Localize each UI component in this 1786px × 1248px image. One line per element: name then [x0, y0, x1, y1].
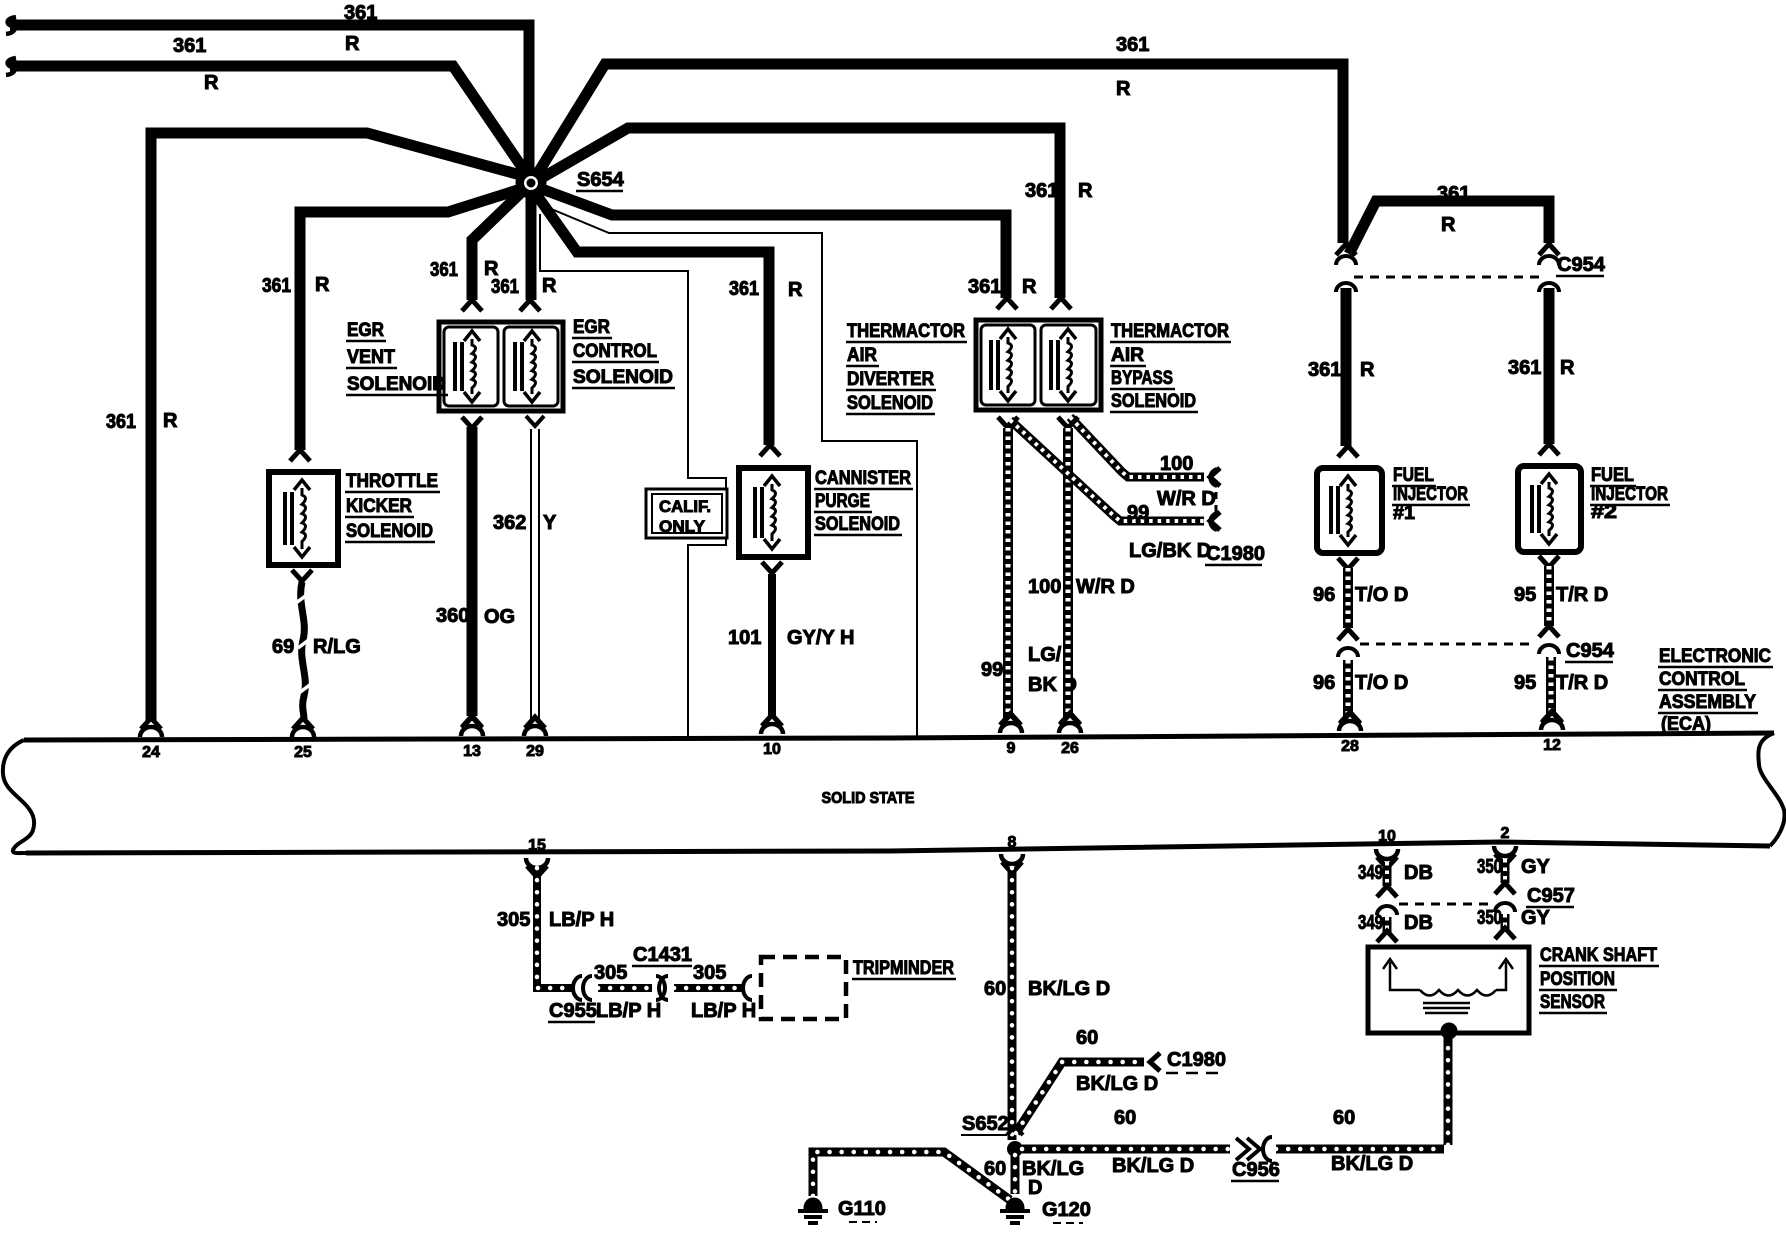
wire 305 LB/P H (ECA pin 15 to C955, dotted)	[497, 868, 614, 988]
svg-text:12: 12	[1543, 737, 1561, 754]
svg-text:INJECTOR: INJECTOR	[1393, 484, 1468, 505]
ECA label	[1658, 646, 1773, 735]
svg-text:361: 361	[1116, 34, 1149, 56]
wire 361 R (branch to fuel injector no.2 via C954)	[1349, 183, 1549, 254]
svg-text:THROTTLE: THROTTLE	[346, 471, 438, 492]
svg-text:OG: OG	[484, 606, 515, 628]
svg-text:LG/BK D: LG/BK D	[1129, 540, 1211, 562]
svg-text:SOLENOID: SOLENOID	[347, 374, 446, 395]
connector C1431	[632, 944, 692, 1000]
svg-text:GY: GY	[1521, 907, 1551, 929]
wire 100 W/R D (thermactor air bypass branch to C1980, hatched)	[1070, 417, 1220, 510]
svg-text:60: 60	[1333, 1107, 1355, 1129]
svg-text:ELECTRONIC: ELECTRONIC	[1659, 646, 1771, 667]
svg-text:(ECA): (ECA)	[1661, 714, 1711, 735]
THROTTLE KICKER SOLENOID label	[345, 471, 440, 542]
svg-text:BK/LG D: BK/LG D	[1112, 1155, 1194, 1177]
wire 350 GY (C957 to crank shaft position sensor, hatched)	[1477, 907, 1551, 939]
wire 305 LB/P H (C1431 to tripminder, dotted)	[674, 962, 756, 1022]
svg-text:EGR: EGR	[347, 320, 384, 341]
wire 361 R (C954 to fuel injector no.1)	[1308, 288, 1375, 457]
svg-text:G110: G110	[838, 1198, 886, 1220]
wire 361 R (splice to EGR control solenoid)	[491, 190, 557, 311]
wire 360 OG (EGR vent solenoid to ECA pin 13)	[436, 417, 515, 727]
wire 361 R (splice to throttle kicker solenoid)	[262, 188, 524, 461]
svg-text:100: 100	[1160, 453, 1193, 475]
svg-text:SENSOR: SENSOR	[1540, 992, 1605, 1013]
wire 361 R (top feed, from off-page left to splice S654)	[6, 2, 529, 170]
connector at tripminder	[743, 976, 752, 1000]
svg-text:361: 361	[729, 278, 759, 300]
svg-text:R: R	[788, 279, 803, 301]
svg-text:R/LG: R/LG	[313, 636, 361, 658]
svg-text:361: 361	[1437, 183, 1470, 205]
svg-text:8: 8	[1008, 834, 1017, 851]
ECA pin 10 (crank sensor)	[1376, 828, 1398, 868]
svg-text:C956: C956	[1232, 1159, 1280, 1181]
svg-text:C955: C955	[549, 1000, 597, 1022]
svg-text:W/R D: W/R D	[1157, 488, 1216, 510]
ECA pin 13	[461, 717, 483, 760]
svg-text:R: R	[1078, 180, 1093, 202]
svg-text:305: 305	[594, 962, 627, 984]
wire 361 R (splice to EGR vent solenoid)	[430, 183, 531, 311]
svg-text:361: 361	[173, 35, 206, 57]
svg-text:AIR: AIR	[847, 345, 877, 366]
ECA pin 8	[1001, 834, 1023, 873]
crank shaft position sensor (box with pickup coil)	[1368, 947, 1529, 1039]
svg-text:D: D	[1028, 1177, 1042, 1199]
svg-text:24: 24	[142, 744, 160, 761]
svg-text:25: 25	[294, 744, 312, 761]
wire 95 T/R D (fuel injector no.2 to C954, hatched)	[1514, 556, 1608, 637]
connector C955	[548, 976, 597, 1022]
EGR VENT SOLENOID label	[346, 320, 448, 395]
svg-text:60: 60	[984, 978, 1006, 1000]
THERMACTOR AIR BYPASS SOLENOID label	[1110, 321, 1231, 412]
svg-text:DIVERTER: DIVERTER	[847, 369, 934, 390]
electronic control assembly band (solid state)	[3, 733, 1785, 853]
svg-text:100: 100	[1028, 576, 1061, 598]
svg-text:15: 15	[528, 837, 546, 854]
connector C954 (lower, injector harness)	[1338, 640, 1615, 662]
wire 60 BK/LG D (ground G110 branch, dotted)	[813, 1152, 1010, 1200]
svg-text:361: 361	[430, 259, 458, 281]
svg-text:361: 361	[1025, 180, 1058, 202]
svg-text:DB: DB	[1404, 912, 1433, 934]
svg-text:350: 350	[1477, 907, 1502, 929]
svg-text:60: 60	[984, 1158, 1006, 1180]
svg-text:ASSEMBLY: ASSEMBLY	[1659, 692, 1756, 713]
svg-text:LG/: LG/	[1028, 644, 1062, 666]
splice S652	[961, 1113, 1023, 1157]
wire 361 R (C954 to fuel injector no.2)	[1508, 288, 1575, 455]
wire 361 R (second off-page feed into splice S654)	[6, 35, 528, 176]
wire 361 R (splice to thermactor air bypass solenoid)	[533, 128, 1093, 309]
svg-text:GY/Y H: GY/Y H	[787, 627, 854, 649]
svg-text:28: 28	[1341, 738, 1359, 755]
svg-text:69: 69	[272, 636, 294, 658]
ECA pin 12	[1541, 711, 1563, 754]
svg-text:CRANK SHAFT: CRANK SHAFT	[1540, 945, 1657, 966]
svg-text:FUEL: FUEL	[1393, 465, 1434, 486]
tripminder (dashed box)	[761, 957, 956, 1019]
svg-text:TRIPMINDER: TRIPMINDER	[853, 958, 954, 979]
svg-text:G120: G120	[1042, 1199, 1091, 1221]
svg-text:305: 305	[497, 909, 530, 931]
svg-text:THERMACTOR: THERMACTOR	[847, 321, 965, 342]
svg-text:PURGE: PURGE	[815, 491, 870, 512]
svg-text:W/R D: W/R D	[1076, 576, 1135, 598]
svg-text:R: R	[1116, 78, 1131, 100]
wire 60 BK/LG D (S652 to C956, dotted)	[1022, 1107, 1230, 1177]
connector C1980 (thermactor branches)	[1205, 492, 1265, 565]
svg-text:BK/LG D: BK/LG D	[1076, 1073, 1158, 1095]
wire 60 BK/LG D (S652 to ground G120, dotted)	[984, 1155, 1084, 1199]
wire 361 R (splice to thermactor air diverter solenoid)	[531, 185, 1037, 309]
svg-text:CONTROL: CONTROL	[1659, 669, 1745, 690]
splice S654	[516, 168, 625, 198]
svg-text:LB/P H: LB/P H	[549, 909, 614, 931]
svg-text:R: R	[1560, 357, 1575, 379]
svg-text:361: 361	[262, 275, 291, 297]
svg-text:T/R D: T/R D	[1556, 672, 1608, 694]
wire 100 W/R D (thermactor air bypass to ECA pin 26, hatched)	[1028, 417, 1135, 724]
connector C957	[1377, 885, 1575, 915]
svg-text:361: 361	[968, 276, 1001, 298]
svg-text:10: 10	[1378, 828, 1396, 845]
wire 350 GY (ECA pin 2 to C957, hatched)	[1477, 856, 1551, 894]
svg-text:T/O D: T/O D	[1355, 672, 1408, 694]
fuel injector no.2 (box)	[1518, 466, 1581, 552]
california-only region boundary (right)	[537, 203, 917, 737]
CANNISTER PURGE SOLENOID label	[814, 468, 913, 535]
wire 101 GY/Y H (cannister purge solenoid to ECA pin 10)	[728, 562, 854, 726]
THERMACTOR AIR DIVERTER SOLENOID label	[846, 321, 967, 414]
ECA pin 26	[1059, 714, 1081, 757]
svg-text:CALIF.: CALIF.	[659, 497, 711, 516]
ECA pin 29	[524, 717, 546, 760]
wire 99 LG/BK D (thermactor air diverter to ECA pin 9, hatched)	[981, 417, 1077, 725]
connector C954 (wire 361 halves above fuel injectors)	[1336, 244, 1606, 292]
svg-text:349: 349	[1358, 862, 1383, 884]
FUEL INJECTOR #1 label	[1392, 465, 1470, 524]
svg-text:96: 96	[1313, 672, 1335, 694]
FUEL INJECTOR #2 label	[1590, 465, 1670, 523]
wire 361 R (splice to cannister purge solenoid)	[531, 187, 803, 456]
svg-text:FUEL: FUEL	[1591, 465, 1634, 486]
svg-text:C957: C957	[1527, 885, 1575, 907]
cannister purge solenoid (box)	[739, 468, 808, 557]
svg-text:13: 13	[463, 743, 481, 760]
svg-text:SOLENOID: SOLENOID	[573, 367, 673, 388]
ECA pin 10	[761, 715, 783, 758]
wire 99 LG/BK D (thermactor air diverter branch to C1980, hatched)	[1010, 420, 1220, 562]
svg-text:361: 361	[491, 276, 519, 298]
svg-text:R: R	[1022, 276, 1037, 298]
throttle kicker solenoid (box)	[269, 472, 338, 565]
svg-text:DB: DB	[1404, 862, 1433, 884]
svg-text:CANNISTER: CANNISTER	[815, 468, 911, 489]
wire 60 BK/LG D (ECA pin 8 to splice S652, dotted)	[984, 868, 1110, 1140]
wire 96 T/O D (C954 to ECA pin 28, hatched)	[1313, 660, 1408, 724]
svg-text:BYPASS: BYPASS	[1111, 368, 1173, 389]
svg-text:361: 361	[344, 2, 377, 24]
wire 305 LB/P H (C955 to C1431, dotted)	[594, 962, 661, 1022]
ECA pin 25	[292, 718, 314, 761]
svg-text:99: 99	[981, 659, 1003, 681]
wire 95 T/R D (C954 to ECA pin 12, hatched)	[1514, 657, 1608, 723]
svg-text:361: 361	[1308, 359, 1341, 381]
svg-text:305: 305	[693, 962, 726, 984]
svg-text:60: 60	[1076, 1027, 1098, 1049]
svg-text:BK/LG D: BK/LG D	[1028, 978, 1110, 1000]
svg-text:26: 26	[1061, 740, 1079, 757]
EGR CONTROL SOLENOID label	[572, 317, 675, 388]
svg-text:95: 95	[1514, 672, 1536, 694]
svg-text:S654: S654	[577, 169, 625, 191]
svg-text:99: 99	[1127, 502, 1149, 524]
svg-text:R: R	[542, 275, 557, 297]
svg-text:LB/P H: LB/P H	[596, 1000, 661, 1022]
california-only region boundary (left)	[540, 214, 726, 740]
svg-text:350: 350	[1477, 856, 1502, 878]
svg-text:S652: S652	[962, 1113, 1009, 1135]
svg-text:ONLY: ONLY	[659, 517, 706, 536]
thermactor air diverter / bypass solenoid (two-cell box)	[976, 320, 1101, 410]
svg-text:C954: C954	[1557, 254, 1606, 276]
svg-text:SOLENOID: SOLENOID	[847, 393, 933, 414]
wire 60 BK/LG D (S652 branch to C1980, dotted)	[1016, 1027, 1160, 1133]
ground G110	[798, 1198, 886, 1223]
svg-text:C1431: C1431	[633, 944, 692, 966]
svg-text:R: R	[163, 410, 178, 432]
svg-text:101: 101	[728, 627, 761, 649]
svg-text:VENT: VENT	[347, 347, 395, 368]
svg-text:SOLID STATE: SOLID STATE	[822, 790, 915, 807]
svg-text:29: 29	[526, 743, 544, 760]
svg-text:AIR: AIR	[1111, 345, 1144, 366]
svg-text:T/O D: T/O D	[1355, 584, 1408, 606]
svg-text:362: 362	[493, 512, 526, 534]
connector C1980 (ground harness)	[1166, 1049, 1226, 1073]
svg-text:60: 60	[1114, 1107, 1136, 1129]
svg-text:C1980: C1980	[1167, 1049, 1226, 1071]
svg-text:T/R D: T/R D	[1556, 584, 1608, 606]
wire 349 DB (ECA pin 10 to C957, hatched)	[1358, 862, 1433, 897]
fuel injector no.1 (box)	[1317, 468, 1382, 553]
svg-text:SOLENOID: SOLENOID	[1111, 391, 1196, 412]
EGR vent solenoid / EGR control solenoid (two-cell box)	[439, 322, 563, 411]
wire 349 DB (C957 to crank shaft position sensor, hatched)	[1358, 912, 1433, 942]
svg-text:361: 361	[106, 411, 136, 433]
ECA pin 24	[140, 718, 162, 761]
svg-text:96: 96	[1313, 584, 1335, 606]
connector C956	[1231, 1137, 1280, 1181]
ECA pin 28	[1339, 712, 1361, 755]
svg-text:R: R	[204, 72, 219, 94]
svg-text:10: 10	[763, 741, 781, 758]
svg-text:2: 2	[1501, 825, 1510, 842]
svg-text:GY: GY	[1521, 856, 1551, 878]
svg-text:R: R	[315, 274, 330, 296]
svg-text:#1: #1	[1393, 503, 1415, 524]
ECA pin 15	[526, 837, 548, 877]
svg-text:SOLENOID: SOLENOID	[815, 514, 900, 535]
wire 361 R (splice to ECA pin 24)	[106, 133, 524, 722]
svg-text:C954: C954	[1566, 640, 1615, 662]
CALIF. ONLY label box	[646, 489, 727, 538]
CRANK SHAFT POSITION SENSOR label	[1539, 945, 1659, 1013]
ECA pin 9	[1000, 714, 1022, 757]
svg-text:9: 9	[1007, 740, 1016, 757]
svg-text:R: R	[1441, 214, 1456, 236]
svg-text:THERMACTOR: THERMACTOR	[1111, 321, 1229, 342]
wire 60 BK/LG D (C956 to crank shaft position sensor, dotted)	[1276, 1036, 1448, 1175]
ECA pin 2	[1494, 825, 1516, 865]
svg-text:Y: Y	[543, 512, 557, 534]
svg-text:R: R	[345, 33, 360, 55]
svg-text:C1980: C1980	[1206, 543, 1265, 565]
svg-text:BK/LG D: BK/LG D	[1331, 1153, 1413, 1175]
ground G120	[1000, 1199, 1091, 1223]
svg-text:POSITION: POSITION	[1540, 969, 1615, 990]
svg-text:361: 361	[1508, 357, 1541, 379]
svg-text:SOLENOID: SOLENOID	[346, 521, 433, 542]
svg-text:KICKER: KICKER	[346, 496, 412, 517]
svg-text:95: 95	[1514, 584, 1536, 606]
svg-text:#2: #2	[1591, 502, 1617, 523]
wire 361 R (splice to fuel injector no.1 via C954)	[533, 34, 1343, 243]
wire 362 Y (EGR control solenoid to ECA pin 29, hollow)	[493, 416, 557, 728]
svg-text:CONTROL: CONTROL	[573, 341, 657, 362]
wire 69 R/LG (throttle kicker solenoid to ECA pin 25, twisted)	[272, 570, 361, 729]
svg-text:360: 360	[436, 605, 469, 627]
svg-text:EGR: EGR	[573, 317, 610, 338]
wire 96 T/O D (fuel injector no.1 to C954, hatched)	[1313, 558, 1408, 640]
svg-text:LB/P H: LB/P H	[691, 1000, 756, 1022]
svg-text:R: R	[1360, 359, 1375, 381]
svg-text:349: 349	[1358, 912, 1383, 934]
